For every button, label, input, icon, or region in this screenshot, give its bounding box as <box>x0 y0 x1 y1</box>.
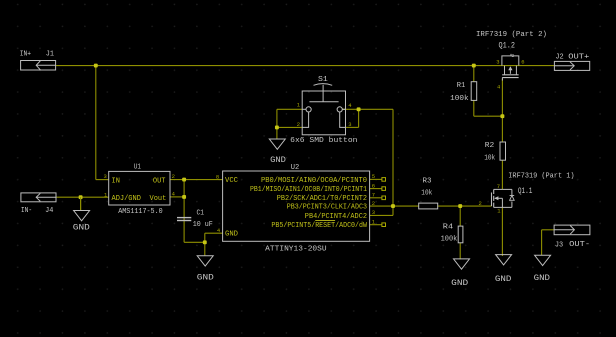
svg-text:100k: 100k <box>441 235 458 243</box>
svg-text:6x6 SMD button: 6x6 SMD button <box>290 137 357 145</box>
svg-text:2: 2 <box>297 121 300 128</box>
svg-text:R2: R2 <box>485 142 495 150</box>
svg-text:PB3/PCINT3/CLKI/ADC3: PB3/PCINT3/CLKI/ADC3 <box>287 204 367 212</box>
svg-text:R1: R1 <box>457 82 466 90</box>
svg-text:10k: 10k <box>421 189 432 197</box>
svg-text:ATTINY13-20SU: ATTINY13-20SU <box>265 245 326 253</box>
svg-text:6: 6 <box>372 182 375 189</box>
svg-text:R3: R3 <box>423 178 432 186</box>
svg-text:U1: U1 <box>134 163 141 171</box>
svg-text:3: 3 <box>104 173 107 180</box>
svg-text:2: 2 <box>172 173 175 180</box>
svg-text:GND: GND <box>270 156 286 165</box>
svg-text:6: 6 <box>521 59 524 66</box>
svg-text:GND: GND <box>197 273 214 282</box>
svg-text:PB1/MISO/AIN1/OC0B/INT0/PCINT1: PB1/MISO/AIN1/OC0B/INT0/PCINT1 <box>250 186 367 194</box>
svg-text:J3: J3 <box>555 241 564 249</box>
svg-text:3: 3 <box>348 121 351 128</box>
svg-text:OUT: OUT <box>153 177 166 185</box>
svg-text:10 uF: 10 uF <box>193 221 213 229</box>
svg-text:7: 7 <box>497 183 500 190</box>
svg-text:GND: GND <box>225 231 238 239</box>
svg-text:PB0/MOSI/AIN0/OC0A/PCINT0: PB0/MOSI/AIN0/OC0A/PCINT0 <box>261 177 367 185</box>
svg-text:IN+: IN+ <box>20 51 32 59</box>
svg-text:2: 2 <box>479 200 482 207</box>
svg-text:8: 8 <box>216 173 219 180</box>
svg-text:Vout: Vout <box>150 195 167 203</box>
svg-text:GND: GND <box>451 279 468 288</box>
svg-text:J1: J1 <box>46 51 55 59</box>
svg-text:7: 7 <box>372 192 375 199</box>
svg-text:U2: U2 <box>291 164 300 172</box>
svg-text:3: 3 <box>372 209 375 216</box>
svg-text:Q1.1: Q1.1 <box>518 187 533 196</box>
svg-text:GND: GND <box>534 274 550 283</box>
svg-text:PB4/PCINT4/ADC2: PB4/PCINT4/ADC2 <box>305 213 367 221</box>
svg-text:PB2/SCK/ADC1/T0/PCINT2: PB2/SCK/ADC1/T0/PCINT2 <box>277 195 367 203</box>
svg-text:VCC: VCC <box>225 177 238 185</box>
svg-text:R4: R4 <box>443 224 454 232</box>
svg-text:IN-: IN- <box>21 207 32 215</box>
svg-text:C1: C1 <box>197 210 205 218</box>
svg-text:10k: 10k <box>484 154 495 162</box>
svg-text:GND: GND <box>73 224 90 233</box>
svg-text:AMS1117-5.0: AMS1117-5.0 <box>118 208 163 216</box>
svg-text:Q1.2: Q1.2 <box>499 42 516 51</box>
svg-text:OUT+: OUT+ <box>568 53 590 61</box>
svg-text:S1: S1 <box>318 76 328 84</box>
svg-text:2: 2 <box>372 200 375 207</box>
svg-text:GND: GND <box>495 275 512 284</box>
svg-text:PB5/PCINT5/RESET/ADC0/dW: PB5/PCINT5/RESET/ADC0/dW <box>271 222 367 230</box>
svg-text:IN: IN <box>112 177 120 185</box>
svg-text:J2: J2 <box>555 54 563 62</box>
svg-text:J4: J4 <box>45 207 54 215</box>
svg-text:5: 5 <box>372 173 375 180</box>
svg-text:IRF7319 (Part 1): IRF7319 (Part 1) <box>508 172 574 180</box>
svg-text:2: 2 <box>512 53 515 59</box>
svg-text:3: 3 <box>496 59 499 66</box>
svg-text:100k: 100k <box>450 95 469 103</box>
svg-text:OUT-: OUT- <box>569 241 590 249</box>
svg-text:ADJ/GND: ADJ/GND <box>112 195 141 203</box>
svg-text:IRF7319 (Part 2): IRF7319 (Part 2) <box>476 31 547 39</box>
